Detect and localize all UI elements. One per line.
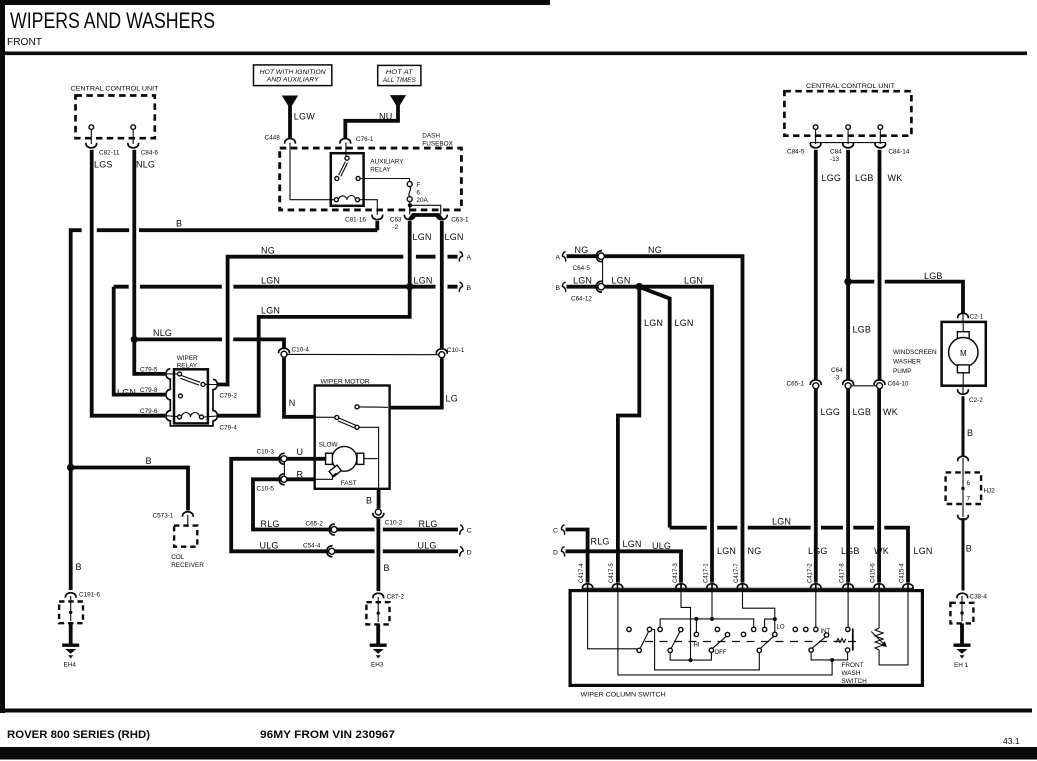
wire N from C10-4 down to wiper motor — [284, 358, 315, 417]
svg-text:COL: COL — [171, 554, 185, 561]
svg-text:FAST: FAST — [341, 480, 357, 487]
svg-text:M: M — [960, 349, 967, 358]
wire LG C10-1 down into motor — [390, 358, 442, 407]
switch S3 OFF — [709, 632, 730, 652]
connector C10-1 — [436, 347, 464, 358]
connector HJ2 bottom hook — [958, 515, 969, 520]
svg-text:NG: NG — [748, 546, 762, 556]
wire B horizontal C81-16 to left (breaks at LGS and NLG) — [71, 221, 378, 468]
wire thin C448 feed to relay coil — [290, 143, 334, 200]
wire thin C76-1 feed to relay blade — [345, 143, 347, 157]
wire thin C417-1 entry — [711, 592, 713, 619]
svg-text:C79-4: C79-4 — [220, 425, 238, 432]
svg-text:NG: NG — [575, 245, 589, 255]
wire thin C79-6 lead — [166, 415, 178, 418]
connector C63-2 — [390, 215, 415, 231]
connector hook C417-4 — [582, 584, 592, 592]
connector C54-4 — [303, 543, 335, 557]
wire thin relay contact to fuse — [360, 178, 410, 180]
wire thin dot to S2 pivot — [670, 653, 690, 660]
central control unit (right) box — [784, 83, 911, 136]
svg-text:-13: -13 — [830, 156, 840, 163]
wire thin connector C64 link vertical — [602, 259, 604, 284]
svg-text:C79-6: C79-6 — [140, 408, 158, 415]
svg-text:LGS: LGS — [94, 160, 113, 170]
svg-text:C: C — [467, 528, 472, 535]
connector C79-5 — [140, 367, 158, 374]
svg-text:C81-16: C81-16 — [345, 217, 366, 224]
wiper motor box — [315, 379, 390, 489]
dash fusebox dashed box — [280, 148, 462, 210]
svg-text:C63-1: C63-1 — [451, 216, 469, 223]
continuation bracket D (right) — [553, 547, 565, 557]
svg-text:7: 7 — [967, 496, 971, 503]
svg-text:RLG: RLG — [261, 519, 280, 529]
svg-text:C65-2: C65-2 — [306, 521, 324, 528]
page frame left bar — [0, 0, 5, 713]
node spare contact — [741, 632, 745, 636]
svg-text:RLG: RLG — [591, 537, 610, 547]
node delay contact bottom — [845, 648, 849, 652]
svg-text:HJ2: HJ2 — [984, 488, 996, 495]
switch S1 park switch — [637, 627, 652, 652]
svg-text:PUMP: PUMP — [893, 368, 911, 375]
svg-text:LGN: LGN — [623, 539, 642, 549]
node contact — [762, 627, 766, 631]
wire thin HI drop — [695, 619, 697, 632]
wire B HJ2 down to C38-4 — [962, 518, 965, 591]
connector C81-16 — [345, 215, 383, 224]
wire B branch right to COL receiver — [71, 468, 188, 511]
wire LGN diagonal branch down to LGN run — [641, 288, 670, 528]
svg-text:F: F — [416, 182, 420, 189]
motor switch blade — [315, 415, 359, 429]
wire B left down to C191-6 — [69, 468, 73, 591]
fuse F6 20A — [407, 179, 428, 204]
wire thin connector C10 link — [283, 462, 285, 477]
svg-text:WINDSCREEN: WINDSCREEN — [893, 349, 937, 356]
node NG-LO junction — [773, 617, 777, 621]
svg-text:B: B — [384, 563, 390, 573]
hot at all times box — [378, 65, 421, 85]
connector C64-3 — [831, 367, 854, 389]
svg-text:C64: C64 — [831, 367, 843, 374]
svg-text:WK: WK — [888, 173, 903, 183]
svg-text:LGN: LGN — [261, 306, 280, 316]
terminal pin C84-5 — [813, 125, 818, 144]
svg-text:LGN: LGN — [914, 546, 933, 556]
svg-text:AUXILIARY: AUXILIARY — [370, 159, 404, 166]
svg-text:DASH: DASH — [422, 133, 440, 140]
svg-text:LGN: LGN — [644, 318, 663, 328]
svg-text:ULG: ULG — [260, 541, 279, 551]
switch S5 wash — [809, 633, 829, 653]
connector C38-4 — [957, 593, 987, 600]
wire NG relay C79-2 up and right to bracket A (breaks at C63 wires) — [218, 257, 458, 385]
svg-text:A: A — [556, 255, 561, 262]
svg-text:RLG: RLG — [419, 519, 438, 529]
connector C79-6 — [140, 408, 158, 415]
svg-text:WASH: WASH — [842, 670, 861, 677]
wire LGN C64-12 to junction and to C417-1 — [604, 287, 712, 583]
connector C10-5 — [257, 474, 287, 493]
svg-text:C54-4: C54-4 — [303, 543, 321, 550]
page frame top bar — [0, 0, 550, 5]
svg-text:LGG: LGG — [822, 173, 842, 183]
continuation bracket D (left) — [460, 547, 472, 557]
wire LGB branch right to C2-1 (break at WK wire) — [848, 282, 963, 313]
ground EH 1 — [954, 644, 971, 670]
wire thin connector C64 link — [851, 385, 876, 387]
wire thin fuse branch to C63-1 — [410, 205, 441, 214]
wire B to ground EH 1 — [960, 623, 964, 645]
wire WK C64-10 to C415-6 — [877, 389, 881, 583]
svg-text:B: B — [467, 285, 472, 292]
svg-text:C417-7: C417-7 — [734, 563, 740, 583]
connector hook C417-5 — [612, 584, 622, 592]
wiper relay box — [174, 355, 208, 424]
svg-text:ROVER 800 SERIES (RHD): ROVER 800 SERIES (RHD) — [7, 729, 150, 741]
connector C79-2 — [220, 393, 238, 400]
svg-text:LO: LO — [777, 625, 785, 631]
svg-text:ALL TIMES: ALL TIMES — [382, 77, 417, 84]
wire thin wash pivot to junction — [811, 652, 830, 660]
svg-text:B: B — [966, 544, 972, 554]
connector C84-13 — [830, 143, 853, 163]
wire NLG horizontal to C10-4 (break at NG crossing) — [134, 339, 284, 349]
svg-text:C10-3: C10-3 — [257, 449, 275, 456]
connector hook C415-4 — [903, 584, 913, 592]
node contact under rail end — [752, 627, 756, 631]
svg-text:FUSEBOX: FUSEBOX — [422, 141, 453, 148]
node rail junction HI — [694, 617, 698, 621]
svg-text:B: B — [176, 219, 182, 229]
resistor R1 delay zigzag — [836, 639, 846, 643]
svg-text:C76-1: C76-1 — [356, 136, 374, 143]
wire thin NG entry to LO rail — [743, 592, 775, 632]
svg-text:C84-14: C84-14 — [888, 149, 909, 156]
svg-text:C448: C448 — [265, 135, 281, 142]
wire thin C10-4 to C10-1 link — [287, 353, 439, 355]
ground EH4 — [62, 644, 79, 669]
svg-text:ULG: ULG — [418, 541, 437, 551]
wire LGN C63-2 down to junction — [408, 221, 412, 287]
continuation bracket A (right) — [556, 252, 566, 262]
node fuse output junction — [408, 203, 412, 207]
svg-text:LGN: LGN — [573, 276, 592, 286]
svg-text:OFF: OFF — [715, 650, 727, 656]
wire thin blade output down right side of motor — [359, 427, 379, 488]
wire thin C79-5 lead — [166, 373, 178, 375]
wire LGN stub to C64-12 — [567, 285, 598, 289]
svg-text:20A: 20A — [416, 197, 428, 204]
ground EH3 — [370, 644, 387, 669]
continuation bracket C (right) — [553, 525, 565, 535]
wire thin pot return to C415-4 — [879, 592, 908, 665]
connector hook C417-3 — [676, 584, 686, 592]
node contact circle left spare — [627, 627, 631, 631]
svg-text:CENTRAL CONTROL UNIT: CENTRAL CONTROL UNIT — [71, 86, 159, 93]
wire thin branch to spare contact — [765, 619, 775, 627]
connector C65-1 — [787, 380, 822, 389]
connector C573-1 — [153, 512, 194, 527]
svg-text:NG: NG — [648, 245, 662, 255]
motor LG contact — [355, 405, 388, 409]
svg-text:96MY FROM VIN 230967: 96MY FROM VIN 230967 — [260, 729, 395, 741]
wire LGS vertical C82-11 to C79-6 — [92, 150, 166, 416]
wire B washer pump down — [962, 396, 965, 456]
connector C79-8 — [140, 387, 158, 394]
svg-text:C79-5: C79-5 — [140, 367, 158, 374]
svg-text:SLOW: SLOW — [319, 442, 339, 449]
svg-text:C10-4: C10-4 — [292, 347, 310, 354]
svg-text:U: U — [297, 447, 304, 457]
svg-text:C64-12: C64-12 — [571, 296, 592, 303]
wire LGN junction down with jog to C417-5 — [618, 287, 639, 583]
svg-text:43.1: 43.1 — [1003, 736, 1020, 746]
wiper relay blade and contacts — [178, 372, 206, 398]
node B junction left — [67, 464, 75, 472]
connector C64-12 — [571, 281, 604, 302]
svg-text:FRONT: FRONT — [842, 662, 864, 669]
svg-text:FRONT: FRONT — [7, 36, 43, 48]
svg-text:CENTRAL CONTROL UNIT: CENTRAL CONTROL UNIT — [806, 83, 895, 90]
svg-text:C417-5: C417-5 — [609, 563, 615, 583]
wire ULG to C417-3 — [566, 551, 682, 582]
terminal pin C84-6 — [131, 125, 136, 144]
node spare contact — [715, 627, 719, 631]
resistor R2 potentiometer zigzag — [875, 628, 883, 650]
svg-text:WIPER COLUMN SWITCH: WIPER COLUMN SWITCH — [581, 692, 666, 699]
wire thin C417-2 entry to INT contact — [815, 592, 817, 627]
connector HJ2 top hook — [958, 456, 969, 461]
wire LGN run right to C415-4 (breaks at crossing wires) — [670, 528, 908, 583]
svg-text:LG: LG — [446, 394, 458, 404]
svg-text:LGN: LGN — [445, 232, 464, 242]
wire thin C79-2 lead — [205, 383, 218, 385]
svg-text:LGN: LGN — [413, 232, 432, 242]
power feed triangle LGW — [282, 96, 298, 109]
svg-text:C84-6: C84-6 — [141, 150, 159, 157]
wire NLG junction down to C79-5 — [134, 339, 165, 374]
svg-text:HOT WITH IGNITION: HOT WITH IGNITION — [260, 69, 326, 76]
connector C191-6 — [65, 592, 100, 599]
wire LGB C84-13 down to C64-3 — [846, 150, 850, 380]
svg-text:C415-6: C415-6 — [871, 563, 877, 583]
svg-text:EH4: EH4 — [64, 662, 77, 669]
connector HJ2 box — [946, 458, 996, 517]
svg-text:B: B — [967, 428, 973, 438]
wire thin C79-4 lead — [204, 416, 219, 417]
svg-text:WIPERS AND WASHERS: WIPERS AND WASHERS — [10, 8, 215, 33]
wire B motor bottom to C10-2 — [377, 488, 381, 508]
svg-text:LGB: LGB — [853, 325, 872, 335]
connector C10-4 — [279, 347, 310, 358]
svg-text:C87-2: C87-2 — [387, 594, 405, 601]
wire LGN junction to bracket B (break at C63-1 wire) — [410, 285, 458, 289]
wire NLG vertical C84-6 to junction — [132, 150, 136, 340]
connector C87-2 — [373, 593, 404, 600]
svg-text:6: 6 — [416, 189, 420, 196]
svg-text:AND AUXILIARY: AND AUXILIARY — [266, 77, 320, 84]
COL receiver dashed box — [171, 526, 204, 569]
svg-text:C65-1: C65-1 — [787, 381, 805, 388]
node LGB junction — [844, 278, 852, 286]
svg-text:LGG: LGG — [821, 407, 841, 417]
connector C79 rail with arches — [166, 369, 218, 426]
svg-text:C417-3: C417-3 — [673, 563, 679, 583]
svg-text:LGB: LGB — [924, 271, 943, 281]
svg-text:LGG: LGG — [808, 546, 828, 556]
svg-text:NLG: NLG — [136, 160, 155, 170]
svg-text:WK: WK — [874, 546, 889, 556]
wire bridge joining C63-2 and C63-1 — [410, 215, 442, 220]
connector C10-3 — [257, 449, 287, 465]
continuation bracket C (left) — [460, 525, 472, 535]
power feed triangle NU — [390, 95, 406, 108]
svg-text:WIPER MOTOR: WIPER MOTOR — [321, 379, 370, 386]
svg-text:LGN: LGN — [717, 546, 736, 556]
wire U to ULG run (C10-3 left, down, right) break at B wire — [231, 459, 458, 552]
auxiliary relay U2 box — [331, 153, 404, 206]
wire LGW — [288, 106, 292, 138]
svg-text:RELAY: RELAY — [177, 362, 198, 369]
footer rule — [0, 709, 1032, 713]
svg-text:-2: -2 — [393, 224, 399, 231]
switch interior: mechanical link dashed line — [645, 641, 860, 643]
wire B to ground EH3 — [376, 624, 380, 645]
terminal pin C84-14 — [878, 125, 883, 144]
connector C64-5 — [573, 251, 605, 272]
node wash junction — [830, 658, 834, 662]
svg-text:RELAY: RELAY — [370, 167, 391, 174]
continuation bracket A (left) — [459, 252, 471, 262]
wire LGN horizontal to junction (breaks at NLG and NG wires) — [114, 285, 410, 289]
svg-text:R: R — [297, 470, 304, 480]
connector hook C417-7 — [737, 584, 747, 592]
svg-text:C417-1: C417-1 — [704, 563, 710, 583]
svg-text:LGN: LGN — [261, 276, 280, 286]
node INT contact — [814, 627, 818, 631]
svg-text:LGB: LGB — [855, 173, 874, 183]
connector C84-14 — [875, 143, 910, 156]
wiper relay coil — [178, 413, 204, 420]
footer bottom bar — [0, 747, 1037, 760]
wire RLG to C417-4 — [566, 530, 588, 583]
svg-text:6: 6 — [967, 480, 971, 487]
node HI contact — [694, 632, 698, 636]
svg-text:C38-4: C38-4 — [970, 594, 988, 601]
central control unit (left) box — [71, 86, 159, 139]
svg-text:B: B — [76, 562, 82, 572]
node spare contact — [793, 627, 797, 631]
wire thin wash return to C417-5 — [618, 592, 832, 675]
connector C2-2 — [958, 386, 984, 404]
svg-text:EH 1: EH 1 — [954, 662, 969, 669]
node rail junction C417-1 — [710, 617, 714, 621]
connector hook C417-8 — [843, 584, 853, 592]
washer pump motor M2 — [949, 322, 978, 386]
wire thin relay coil to C81-16 — [360, 200, 378, 215]
svg-text:A: A — [467, 255, 472, 262]
connector block C191 dashed — [59, 596, 83, 623]
wire thin R to fast brush — [315, 473, 337, 479]
connector C63-1 — [436, 215, 469, 224]
connector hook C417-1 — [707, 584, 717, 592]
potentiometer arrow — [871, 632, 887, 648]
svg-text:C10-2: C10-2 — [385, 520, 403, 527]
wire NG C64-5 right and down to C417-7 — [604, 256, 742, 582]
svg-text:N: N — [289, 398, 296, 408]
svg-text:WK: WK — [883, 407, 898, 417]
svg-text:-3: -3 — [834, 375, 840, 382]
node delay contact top — [846, 627, 850, 631]
svg-text:C64-5: C64-5 — [573, 265, 591, 272]
svg-text:ULG: ULG — [652, 541, 671, 551]
connector C448 — [265, 135, 296, 144]
svg-text:WASHER: WASHER — [893, 359, 921, 366]
svg-text:C79-2: C79-2 — [220, 393, 238, 400]
svg-text:B: B — [146, 456, 152, 466]
svg-text:C2-2: C2-2 — [969, 397, 983, 404]
svg-text:EH3: EH3 — [371, 662, 384, 669]
svg-text:C417-8: C417-8 — [840, 563, 846, 583]
wire LGG C65-1 to C417-2 — [814, 389, 818, 583]
title rule — [5, 52, 1027, 56]
svg-text:C63: C63 — [390, 216, 402, 223]
svg-text:LGB: LGB — [841, 546, 860, 556]
wire LGB C64-3 to C417-8 — [846, 389, 850, 583]
wire thin fuse to C63-2 — [409, 202, 411, 215]
svg-text:D: D — [467, 550, 472, 557]
svg-text:C84-5: C84-5 — [787, 149, 805, 156]
label FRONT WASH SWITCH — [842, 662, 868, 685]
wire thin dot to S3 pivot — [691, 652, 712, 660]
switch interior: RLG feed to park switch pivot — [588, 592, 638, 649]
svg-text:C10-5: C10-5 — [257, 486, 275, 493]
svg-text:NG: NG — [261, 246, 275, 256]
wire LGG C84-5 down to C65-1 — [814, 150, 818, 380]
connector C76-1 — [340, 136, 374, 144]
svg-text:C82-11: C82-11 — [99, 150, 120, 157]
svg-text:C2-1: C2-1 — [970, 314, 984, 321]
svg-text:NU: NU — [379, 111, 392, 121]
connector C84-6 — [128, 143, 159, 157]
motor armature M1 — [319, 442, 364, 488]
wire thin ULG entry to OFF pivots — [681, 592, 691, 660]
svg-text:LGN: LGN — [675, 318, 694, 328]
svg-text:D: D — [553, 550, 558, 557]
switch S4 LO — [757, 632, 777, 652]
capacitor plate bar — [852, 629, 854, 651]
svg-text:HOT AT: HOT AT — [386, 69, 414, 76]
svg-text:LGN: LGN — [612, 276, 631, 286]
svg-text:C415-4: C415-4 — [900, 563, 906, 583]
windscreen washer pump box — [893, 322, 986, 386]
terminal pin C82-11 — [89, 125, 94, 144]
connector rail line C417/C415 — [582, 587, 915, 589]
svg-text:C417-2: C417-2 — [808, 563, 814, 583]
svg-text:HI: HI — [694, 643, 700, 649]
svg-text:C417-4: C417-4 — [579, 563, 585, 583]
node LGN junction — [406, 283, 414, 291]
node contact under rail start — [658, 627, 662, 631]
switch interior: feed rail upper — [660, 619, 754, 627]
hot with ignition and auxiliary box — [254, 65, 332, 86]
wire thin right brush to B line — [364, 458, 379, 460]
connector block C87 dashed — [366, 597, 389, 624]
svg-text:LGW: LGW — [294, 112, 315, 122]
